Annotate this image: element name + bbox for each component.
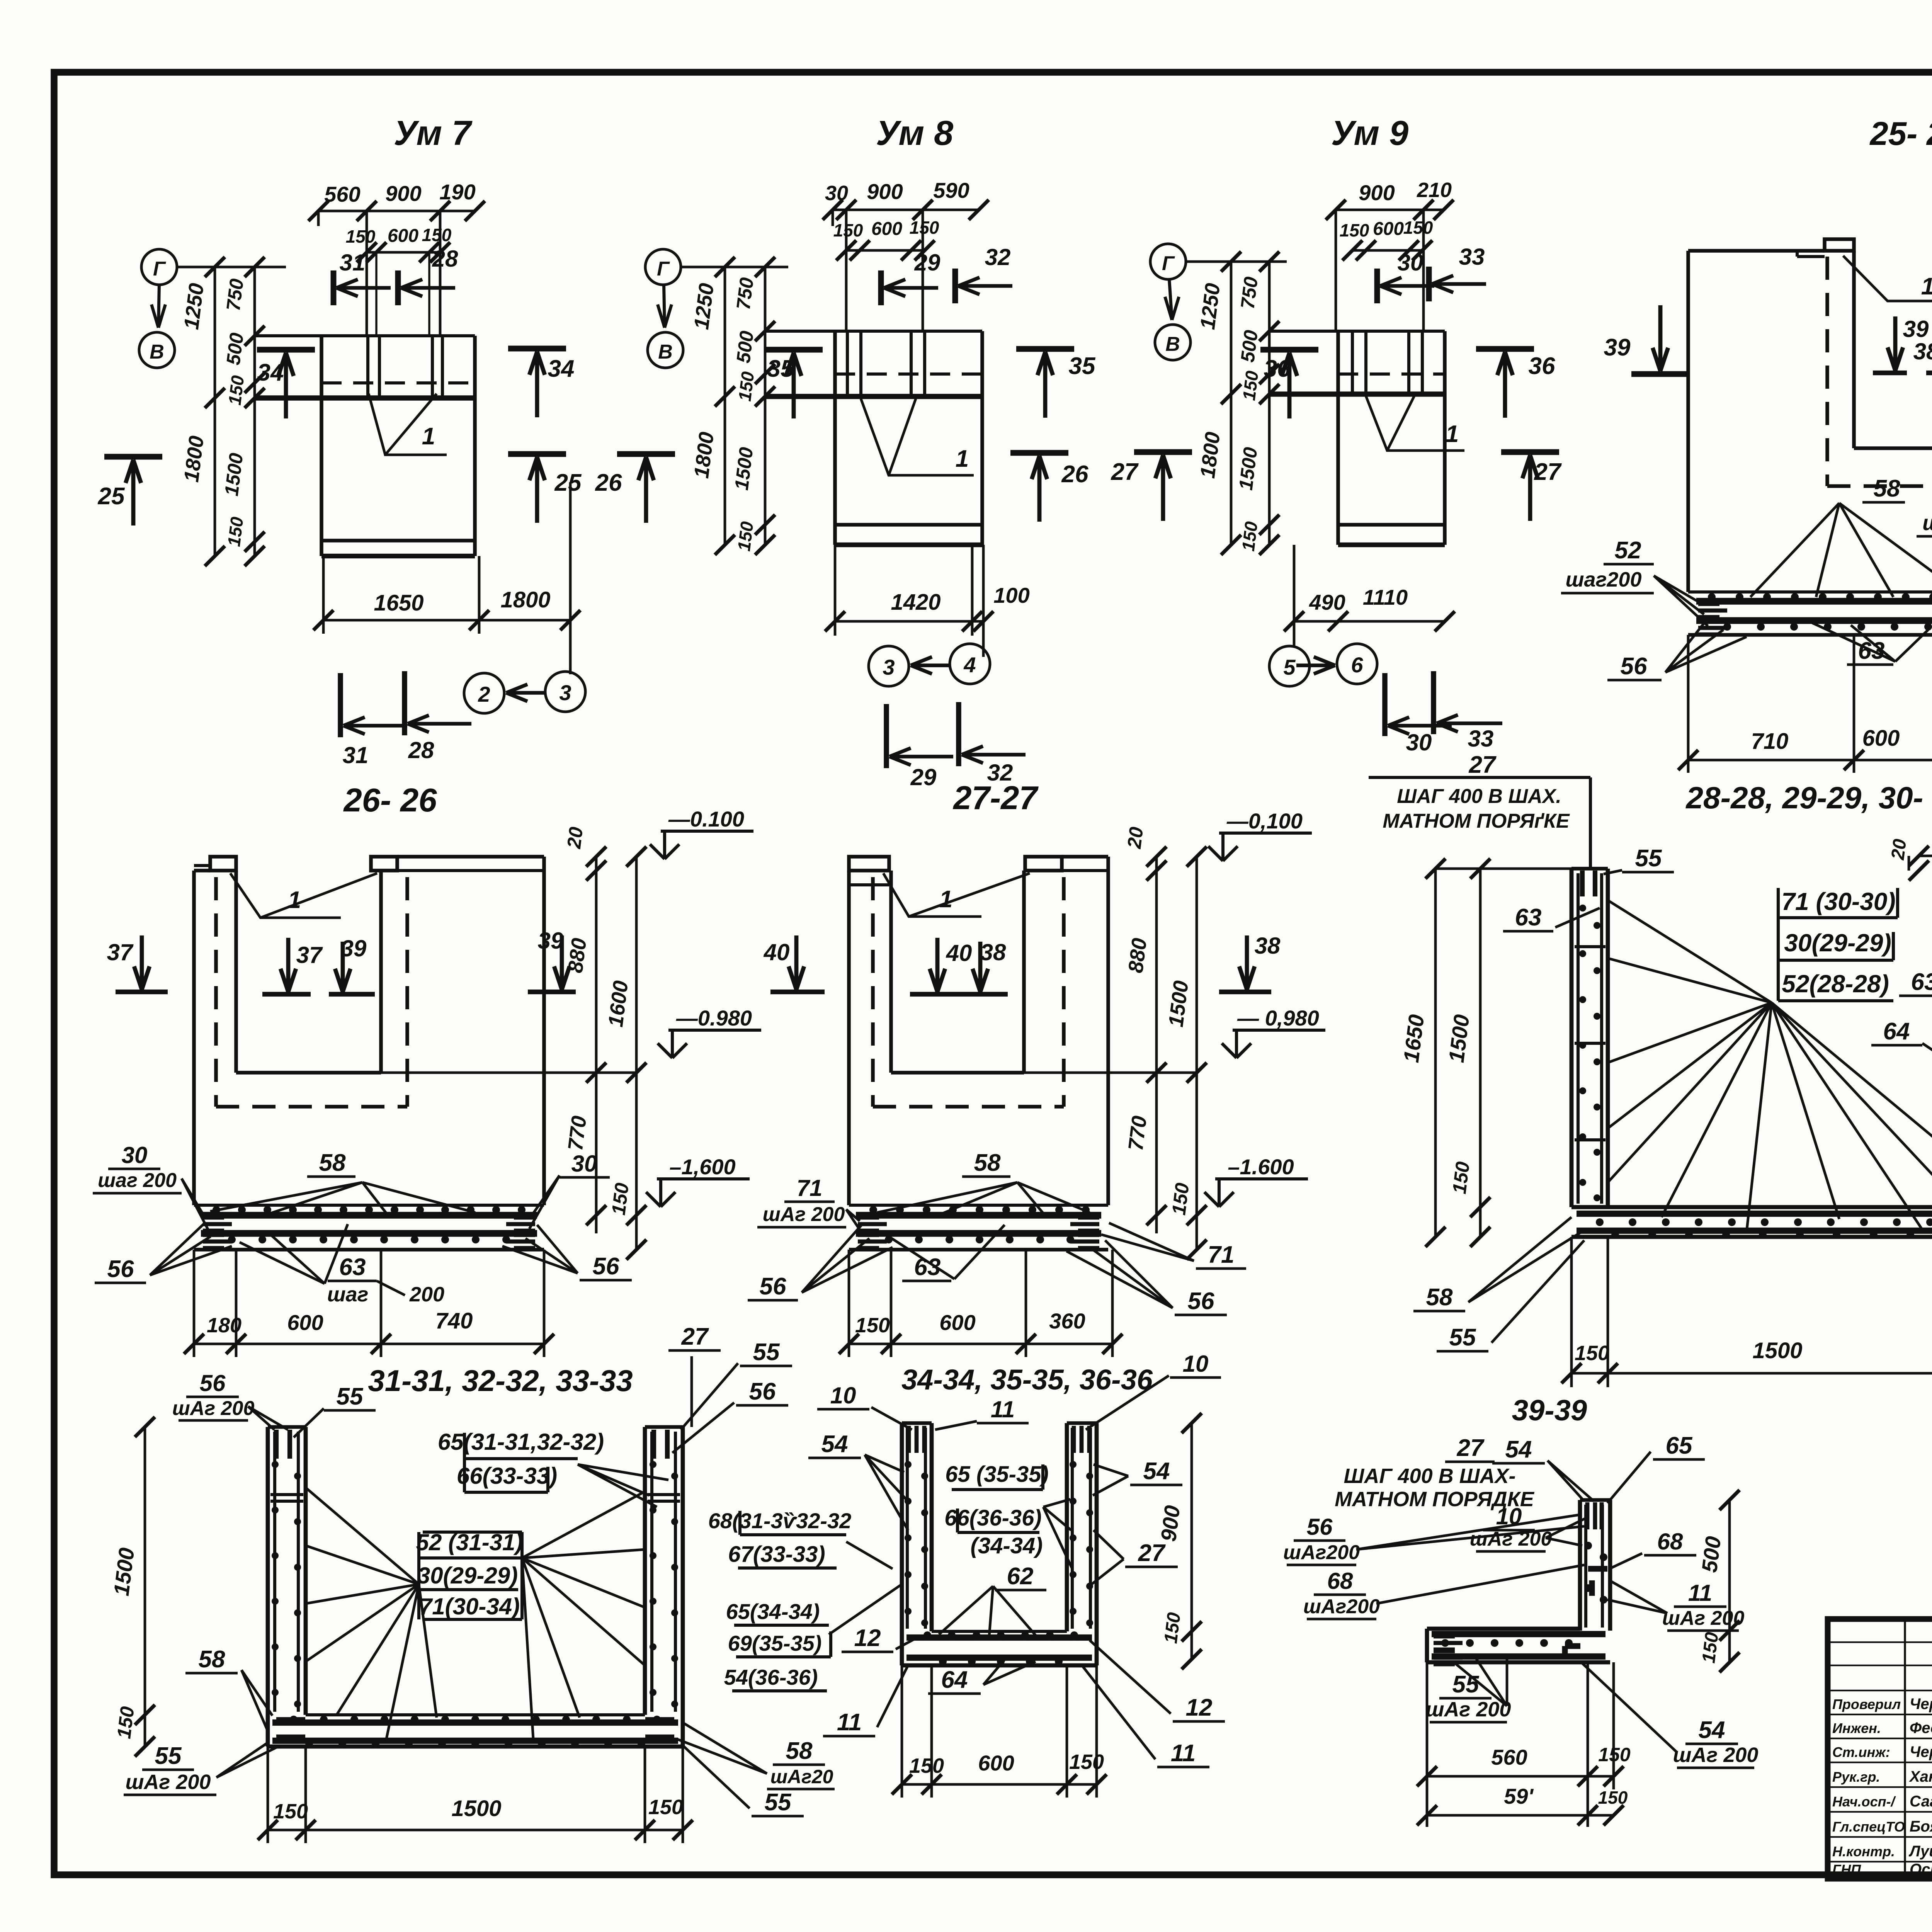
svg-text:11: 11 — [1171, 1740, 1196, 1767]
svg-text:1500: 1500 — [451, 1796, 501, 1821]
svg-text:30(29-29): 30(29-29) — [1784, 929, 1891, 957]
svg-text:— 0,980: — 0,980 — [1237, 1006, 1319, 1030]
fan leaders of section 28-28 — [1608, 900, 1932, 1233]
svg-text:27: 27 — [1138, 1540, 1166, 1566]
bottom cut arrows 31 28 of Um 7 — [340, 671, 471, 768]
svg-text:62: 62 — [1007, 1563, 1034, 1590]
U section 31-31 with rebar — [268, 1427, 683, 1747]
plan body of Um 8 — [765, 331, 982, 545]
svg-text:20: 20 — [1888, 838, 1910, 861]
svg-text:27-27: 27-27 — [952, 780, 1039, 816]
svg-text:560: 560 — [324, 182, 360, 206]
note 27 shag 400 staggered right — [1335, 1435, 1535, 1511]
label 56 left of section 26-26 — [95, 1223, 232, 1283]
label 30 shag 200 left of section 26-26 — [93, 1142, 209, 1231]
top dimension chains of Um 7 — [308, 180, 485, 336]
svg-text:55: 55 — [337, 1383, 364, 1410]
pit walls of section 26-26 — [236, 871, 381, 1073]
svg-text:28: 28 — [432, 246, 458, 272]
svg-text:26: 26 — [595, 469, 622, 496]
grid circles 2 3 of Um 7 — [464, 672, 585, 713]
plan body of Um 9 — [1269, 331, 1445, 545]
svg-text:шАг200: шАг200 — [1303, 1595, 1380, 1618]
svg-text:56: 56 — [107, 1256, 134, 1282]
svg-text:600: 600 — [939, 1310, 975, 1335]
svg-text:39: 39 — [1604, 334, 1631, 361]
svg-text:63: 63 — [1515, 904, 1542, 931]
svg-text:30: 30 — [571, 1151, 597, 1177]
svg-text:71: 71 — [797, 1175, 823, 1201]
bottom cut arrows 30 33 of Um 9 — [1385, 671, 1502, 755]
axis markers G/V of Um 9 — [1150, 244, 1287, 360]
svg-text:63: 63 — [339, 1254, 366, 1281]
svg-text:Нач.осп-/: Нач.осп-/ — [1832, 1794, 1896, 1810]
svg-text:33: 33 — [1468, 726, 1494, 752]
svg-text:65(34-34): 65(34-34) — [726, 1599, 820, 1624]
dimension 20 of section 28-28 — [1888, 837, 1932, 881]
svg-text:1500: 1500 — [1752, 1338, 1802, 1363]
svg-text:590: 590 — [933, 178, 969, 202]
elevation marks of section 26-26 — [646, 807, 761, 1207]
bottom dimension 150 1500 150 of section 31-31 — [258, 1747, 693, 1843]
cut arrow 39 down left of section 25-25 — [1604, 305, 1689, 374]
bottom dimension 1420 100 of Um 8 — [825, 545, 1030, 657]
svg-text:27: 27 — [1469, 752, 1497, 778]
outer outline of section 26-26 — [194, 857, 544, 1205]
svg-text:150: 150 — [910, 218, 939, 238]
svg-text:600: 600 — [287, 1310, 323, 1335]
svg-text:55: 55 — [155, 1743, 182, 1769]
label 63 shag 200 of section 26-26 — [240, 1224, 444, 1306]
svg-text:150: 150 — [1160, 1611, 1184, 1645]
svg-text:900: 900 — [1359, 180, 1395, 205]
label 30 right of section 26-26 — [529, 1151, 610, 1229]
svg-text:26: 26 — [1061, 461, 1088, 488]
svg-text:–1.600: –1.600 — [1228, 1155, 1294, 1179]
leader 1 of section 25-25 — [1843, 256, 1932, 301]
labels 55 63 64 of section 28-28 — [1503, 845, 1932, 1078]
svg-text:39: 39 — [1903, 316, 1929, 342]
svg-text:шАг200: шАг200 — [1283, 1541, 1360, 1564]
svg-text:750: 750 — [1236, 276, 1262, 310]
title block outer — [1828, 1619, 1932, 1879]
svg-text:52: 52 — [1615, 537, 1641, 564]
svg-text:150: 150 — [1340, 220, 1369, 240]
svg-text:150: 150 — [909, 1754, 944, 1777]
outer outline of section 27-27 — [849, 857, 1108, 1205]
svg-text:600: 600 — [388, 226, 418, 246]
svg-text:25- 25: 25- 25 — [1869, 116, 1932, 152]
top dimension chains of Um 8 — [823, 178, 989, 331]
svg-text:В: В — [150, 341, 164, 363]
svg-text:2: 2 — [478, 682, 490, 706]
title section 27-27 — [952, 780, 1039, 816]
title section 25-25 — [1869, 116, 1932, 152]
svg-text:150: 150 — [1403, 218, 1433, 238]
svg-text:150: 150 — [648, 1796, 683, 1819]
svg-text:64: 64 — [941, 1667, 968, 1693]
bottom slab with rebar of section 28-28 — [1571, 1207, 1932, 1239]
left dimension chains of section 28-28 — [1399, 859, 1571, 1247]
bottom dimension 150 1500 150 500 of section 28-28 — [1561, 1101, 1932, 1387]
svg-text:58: 58 — [1874, 475, 1900, 502]
cut arrows 30 33 top of Um 9 — [1377, 244, 1486, 303]
svg-text:65 (35-35): 65 (35-35) — [945, 1462, 1049, 1487]
slab with rebar of section 25-25 — [1688, 592, 1932, 635]
svg-text:Гл.спецТО: Гл.спецТО — [1832, 1819, 1905, 1835]
label 63 of section 27-27 — [889, 1225, 1005, 1281]
svg-text:55: 55 — [1635, 845, 1662, 872]
cut arrows 29 32 top of Um 8 — [881, 244, 1012, 305]
svg-text:770: 770 — [1124, 1114, 1151, 1152]
svg-text:500: 500 — [1236, 329, 1262, 364]
svg-text:71(30-34): 71(30-34) — [419, 1594, 520, 1619]
leader 1 of section 27-27 — [883, 873, 1030, 917]
svg-text:Г: Г — [153, 258, 166, 280]
svg-text:38: 38 — [1255, 933, 1281, 959]
leader 1 of Um 7 — [369, 394, 447, 455]
dashed excavation outline of section 27-27 — [873, 877, 1064, 1107]
svg-text:200: 200 — [409, 1283, 444, 1306]
boxed labels 65 69 54 between sections — [724, 1584, 902, 1691]
svg-text:150: 150 — [346, 226, 376, 247]
svg-text:52(28-28): 52(28-28) — [1782, 970, 1889, 998]
U section 34-34 with rebar — [902, 1423, 1097, 1665]
cut arrows 36 27 of Um 9 — [1260, 349, 1562, 521]
svg-text:Ум 8: Ум 8 — [876, 114, 953, 153]
dashed excavation outline of section 25-25 — [1827, 257, 1932, 486]
svg-text:шаг 200: шаг 200 — [98, 1169, 177, 1192]
svg-text:900: 900 — [867, 179, 903, 204]
svg-text:55: 55 — [1449, 1324, 1476, 1351]
svg-text:150: 150 — [1598, 1787, 1628, 1808]
left dimension chain of section 31-31 — [109, 1417, 268, 1757]
svg-text:11: 11 — [991, 1396, 1015, 1422]
svg-text:210: 210 — [1417, 179, 1452, 202]
svg-text:1800: 1800 — [500, 587, 550, 612]
top dimension chains of Um 9 — [1326, 179, 1454, 331]
svg-text:560: 560 — [1491, 1745, 1527, 1769]
svg-text:34: 34 — [257, 359, 284, 386]
svg-text:600: 600 — [871, 219, 902, 239]
svg-text:Проверил: Проверил — [1832, 1696, 1901, 1712]
svg-text:65: 65 — [1666, 1432, 1693, 1459]
label 56 right of section 26-26 — [502, 1225, 632, 1280]
L section 39-39 with rebar — [1427, 1500, 1610, 1664]
svg-text:30: 30 — [825, 182, 848, 205]
svg-text:12: 12 — [854, 1625, 881, 1651]
svg-text:500: 500 — [1697, 1535, 1726, 1573]
svg-text:71: 71 — [1208, 1242, 1235, 1268]
plan body of Um 7 — [255, 336, 475, 556]
svg-text:150: 150 — [1698, 1631, 1722, 1664]
svg-text:54(36-36): 54(36-36) — [724, 1665, 818, 1689]
svg-text:30: 30 — [1398, 250, 1423, 276]
svg-text:750: 750 — [732, 276, 758, 311]
svg-text:360: 360 — [1049, 1309, 1085, 1333]
svg-text:56: 56 — [593, 1253, 619, 1280]
axis markers G/V of Um 8 — [645, 249, 788, 368]
svg-text:—0,100: —0,100 — [1226, 809, 1303, 833]
svg-text:28-28, 29-29, 30- 30: 28-28, 29-29, 30- 30 — [1685, 781, 1932, 815]
slab with rebar of section 26-26 — [194, 1205, 544, 1250]
svg-text:26- 26: 26- 26 — [343, 782, 437, 819]
svg-text:710: 710 — [1751, 729, 1789, 754]
labels of section 39-39 — [1426, 1432, 1759, 1768]
svg-text:56: 56 — [200, 1370, 226, 1396]
svg-text:100: 100 — [993, 583, 1029, 607]
svg-text:Н.контр.: Н.контр. — [1832, 1844, 1895, 1859]
grid circles 3 4 of Um 8 — [869, 644, 990, 686]
svg-text:В: В — [658, 341, 673, 363]
svg-text:шАг20: шАг20 — [770, 1766, 833, 1787]
label 58 of section 26-26 — [210, 1150, 475, 1213]
svg-text:38: 38 — [1913, 338, 1932, 364]
cut arrows 34 25 26 of Um 7 — [98, 349, 675, 526]
title section 28-28 29-29 30-30 — [1685, 781, 1932, 815]
svg-text:—0.100: —0.100 — [668, 807, 744, 831]
svg-text:150: 150 — [113, 1705, 138, 1740]
svg-text:32: 32 — [985, 244, 1011, 270]
top labels of section 31-31 — [172, 1323, 792, 1453]
labels 58 62 55 bottom of section 28-28 — [1413, 1217, 1932, 1351]
svg-text:59': 59' — [1504, 1784, 1534, 1808]
left dimension chains of Um 9 — [1196, 252, 1279, 555]
svg-text:39: 39 — [538, 928, 564, 954]
svg-text:36: 36 — [1529, 353, 1555, 379]
svg-text:Ум 7: Ум 7 — [394, 114, 473, 153]
svg-text:1: 1 — [1921, 273, 1932, 300]
label 63 of section 25-25 — [1812, 623, 1928, 665]
svg-text:68(31-3ѷ32-32: 68(31-3ѷ32-32 — [708, 1509, 852, 1533]
svg-text:В: В — [1165, 333, 1180, 355]
svg-text:58: 58 — [974, 1150, 1001, 1176]
svg-text:1: 1 — [288, 887, 301, 913]
svg-text:39-39: 39-39 — [1512, 1394, 1587, 1427]
bottom dimension 150 600 150 of section 34-34 — [892, 1665, 1107, 1798]
bottom dimension 1650 1800 of Um 7 — [313, 482, 580, 674]
svg-text:11: 11 — [1688, 1580, 1712, 1606]
svg-text:27: 27 — [1534, 459, 1562, 485]
svg-text:54: 54 — [821, 1431, 848, 1458]
svg-text:Ум 9: Ум 9 — [1331, 114, 1408, 153]
svg-text:63: 63 — [1911, 969, 1932, 995]
svg-text:28: 28 — [408, 737, 434, 763]
svg-text:900: 900 — [385, 181, 421, 206]
label 56 right of section 27-27 — [1066, 1240, 1227, 1315]
svg-text:27: 27 — [1111, 459, 1139, 485]
arrows 37 39 of section 26-26 — [107, 928, 576, 994]
svg-text:–1,600: –1,600 — [669, 1155, 735, 1179]
svg-text:150: 150 — [1598, 1744, 1631, 1765]
bottom dimension 490 1110 of Um 9 — [1284, 545, 1455, 646]
dashed excavation outline of section 26-26 — [216, 877, 407, 1107]
boxed labels 71 30 52 of section 28-28 — [1778, 888, 1898, 1001]
svg-text:150: 150 — [734, 520, 757, 552]
title Um 8 — [876, 114, 953, 153]
svg-text:56: 56 — [1621, 653, 1647, 680]
label 56 left of section 27-27 — [748, 1225, 893, 1300]
svg-text:67(33-33): 67(33-33) — [728, 1542, 825, 1567]
svg-text:71 (30-30): 71 (30-30) — [1781, 888, 1895, 915]
svg-text:190: 190 — [439, 180, 475, 204]
boxed labels 68 67 between sections — [708, 1509, 893, 1569]
label 58 of section 27-27 — [877, 1150, 1090, 1213]
svg-text:36: 36 — [1264, 355, 1291, 382]
svg-text:30(29-29): 30(29-29) — [417, 1563, 518, 1588]
svg-text:150: 150 — [422, 225, 452, 245]
svg-text:10: 10 — [830, 1383, 856, 1408]
svg-text:40: 40 — [764, 939, 790, 965]
svg-text:150: 150 — [607, 1182, 633, 1216]
svg-text:56: 56 — [749, 1378, 776, 1405]
svg-text:750: 750 — [222, 277, 248, 312]
title section 26-26 — [343, 782, 437, 819]
outer outline of section 25-25 — [1688, 239, 1932, 592]
label 71 right of section 27-27 — [1101, 1223, 1246, 1269]
svg-text:150: 150 — [1238, 520, 1262, 552]
arrows 39 38 inside section 25-25 — [1873, 316, 1932, 373]
grid circles 5 6 of Um 9 — [1269, 644, 1377, 686]
label 56 left of section 25-25 — [1607, 618, 1747, 680]
svg-text:Чернявская: Чернявская — [1910, 1743, 1932, 1760]
svg-text:шАг 200: шАг 200 — [126, 1770, 211, 1794]
leader 1 of Um 9 — [1366, 396, 1464, 451]
svg-text:25: 25 — [554, 469, 582, 496]
right dimension chains of section 26-26 — [381, 826, 646, 1260]
bottom dimensions 560 150 591 150 of section 39-39 — [1417, 1662, 1631, 1827]
svg-text:490: 490 — [1309, 590, 1345, 614]
svg-text:Чернявская: Чернявская — [1910, 1696, 1932, 1713]
svg-text:Ст.инж:: Ст.инж: — [1832, 1744, 1890, 1760]
svg-text:58: 58 — [786, 1738, 813, 1764]
name table grid — [1828, 1619, 1932, 1879]
svg-text:54: 54 — [1505, 1436, 1532, 1463]
svg-text:880: 880 — [1124, 937, 1151, 974]
svg-text:38: 38 — [980, 939, 1006, 965]
cut arrows 35 26 27 of Um 8 — [765, 349, 1192, 522]
svg-text:150: 150 — [1239, 369, 1262, 401]
svg-text:35: 35 — [1069, 353, 1096, 379]
labels of section 34-34 — [808, 1351, 1225, 1767]
svg-text:Боярченко: Боярченко — [1910, 1818, 1932, 1835]
svg-text:58: 58 — [319, 1150, 346, 1176]
title section 31-31 32-32 33-33 — [368, 1364, 633, 1398]
bottom labels of section 31-31 — [124, 1646, 835, 1816]
svg-text:Рук.гр.: Рук.гр. — [1832, 1769, 1880, 1785]
svg-text:1110: 1110 — [1363, 585, 1408, 609]
svg-text:1: 1 — [422, 423, 435, 450]
svg-text:10: 10 — [1183, 1351, 1209, 1377]
svg-text:20: 20 — [1123, 826, 1148, 850]
svg-text:150: 150 — [273, 1800, 308, 1823]
svg-text:150: 150 — [1575, 1342, 1609, 1365]
svg-text:ГНП: ГНП — [1832, 1862, 1861, 1878]
title Um 9 — [1331, 114, 1408, 153]
svg-text:55: 55 — [1452, 1671, 1480, 1698]
left dimension chains of Um 7 — [180, 257, 265, 566]
svg-text:Саакьянч: Саакьянч — [1910, 1793, 1932, 1810]
right dimension chains of section 27-27 — [1024, 826, 1207, 1260]
svg-text:58: 58 — [199, 1646, 225, 1673]
svg-text:740: 740 — [435, 1308, 473, 1333]
svg-text:31: 31 — [343, 742, 369, 768]
svg-text:600: 600 — [1862, 726, 1900, 751]
svg-text:1420: 1420 — [891, 590, 940, 615]
svg-text:шАг 200: шАг 200 — [172, 1397, 255, 1420]
svg-text:10: 10 — [1496, 1503, 1522, 1529]
arrows 40 38 of section 27-27 — [764, 933, 1281, 994]
svg-text:25: 25 — [98, 483, 125, 510]
title section 39-39 — [1512, 1394, 1587, 1427]
svg-text:29: 29 — [910, 764, 937, 790]
svg-text:69(35-35): 69(35-35) — [728, 1631, 822, 1655]
svg-text:34-34, 35-35, 36-36: 34-34, 35-35, 36-36 — [901, 1364, 1153, 1396]
bottom dimension 180 600 740 of section 26-26 — [184, 1250, 554, 1357]
svg-text:39: 39 — [341, 935, 367, 961]
svg-text:66(33-33): 66(33-33) — [457, 1463, 557, 1489]
svg-text:шАг 200: шАг 200 — [763, 1203, 845, 1226]
svg-text:55: 55 — [765, 1789, 792, 1816]
label 52 shag 200 left of section 25-25 — [1561, 537, 1708, 626]
left wall with rebar of section 28-28 — [1571, 869, 1608, 1207]
svg-text:64: 64 — [1883, 1018, 1910, 1045]
pit walls of section 27-27 — [891, 871, 1024, 1073]
svg-text:150: 150 — [224, 374, 248, 406]
axis markers G/V of Um 7 — [139, 249, 286, 368]
svg-text:Луценко: Луценко — [1908, 1843, 1932, 1860]
svg-text:150: 150 — [855, 1314, 890, 1337]
svg-text:880: 880 — [564, 937, 591, 974]
svg-text:шаг: шаг — [327, 1283, 369, 1306]
svg-text:11: 11 — [837, 1709, 862, 1736]
svg-text:150: 150 — [735, 370, 758, 402]
svg-text:56: 56 — [1188, 1288, 1214, 1315]
elevation marks of section 27-27 — [1204, 809, 1325, 1207]
right dimension chain of section 39-39 — [1610, 1490, 1740, 1672]
svg-text:Осташевский: Осташевский — [1910, 1861, 1932, 1878]
svg-text:54: 54 — [1699, 1717, 1725, 1743]
svg-text:150: 150 — [224, 515, 247, 548]
label 71 shag 200 left of section 27-27 — [757, 1175, 862, 1233]
svg-text:27: 27 — [1457, 1435, 1485, 1461]
svg-text:55: 55 — [753, 1339, 780, 1366]
svg-text:900: 900 — [1156, 1504, 1185, 1543]
svg-text:150: 150 — [1069, 1750, 1104, 1774]
svg-text:Ханин: Ханин — [1909, 1768, 1932, 1785]
svg-text:34: 34 — [548, 355, 575, 382]
svg-text:шаг 200: шаг 200 — [1922, 510, 1932, 535]
bottom dimension 150 600 360 of section 27-27 — [839, 1250, 1122, 1357]
svg-text:31: 31 — [340, 250, 366, 276]
left dimension chains of Um 8 — [690, 257, 775, 555]
svg-text:500: 500 — [222, 332, 248, 366]
svg-text:500: 500 — [732, 330, 758, 364]
svg-text:600: 600 — [1373, 219, 1404, 239]
svg-text:150: 150 — [1168, 1182, 1193, 1216]
svg-text:65(31-31,32-32): 65(31-31,32-32) — [438, 1429, 604, 1455]
leader 1 of Um 8 — [861, 399, 974, 475]
svg-text:770: 770 — [564, 1114, 591, 1152]
svg-text:5: 5 — [1283, 655, 1296, 679]
svg-text:600: 600 — [978, 1751, 1014, 1775]
svg-text:30: 30 — [122, 1142, 148, 1168]
svg-text:150: 150 — [833, 220, 863, 240]
svg-text:150: 150 — [1448, 1160, 1474, 1195]
svg-text:37: 37 — [107, 939, 134, 965]
svg-text:180: 180 — [207, 1314, 241, 1337]
svg-text:3: 3 — [883, 655, 895, 679]
